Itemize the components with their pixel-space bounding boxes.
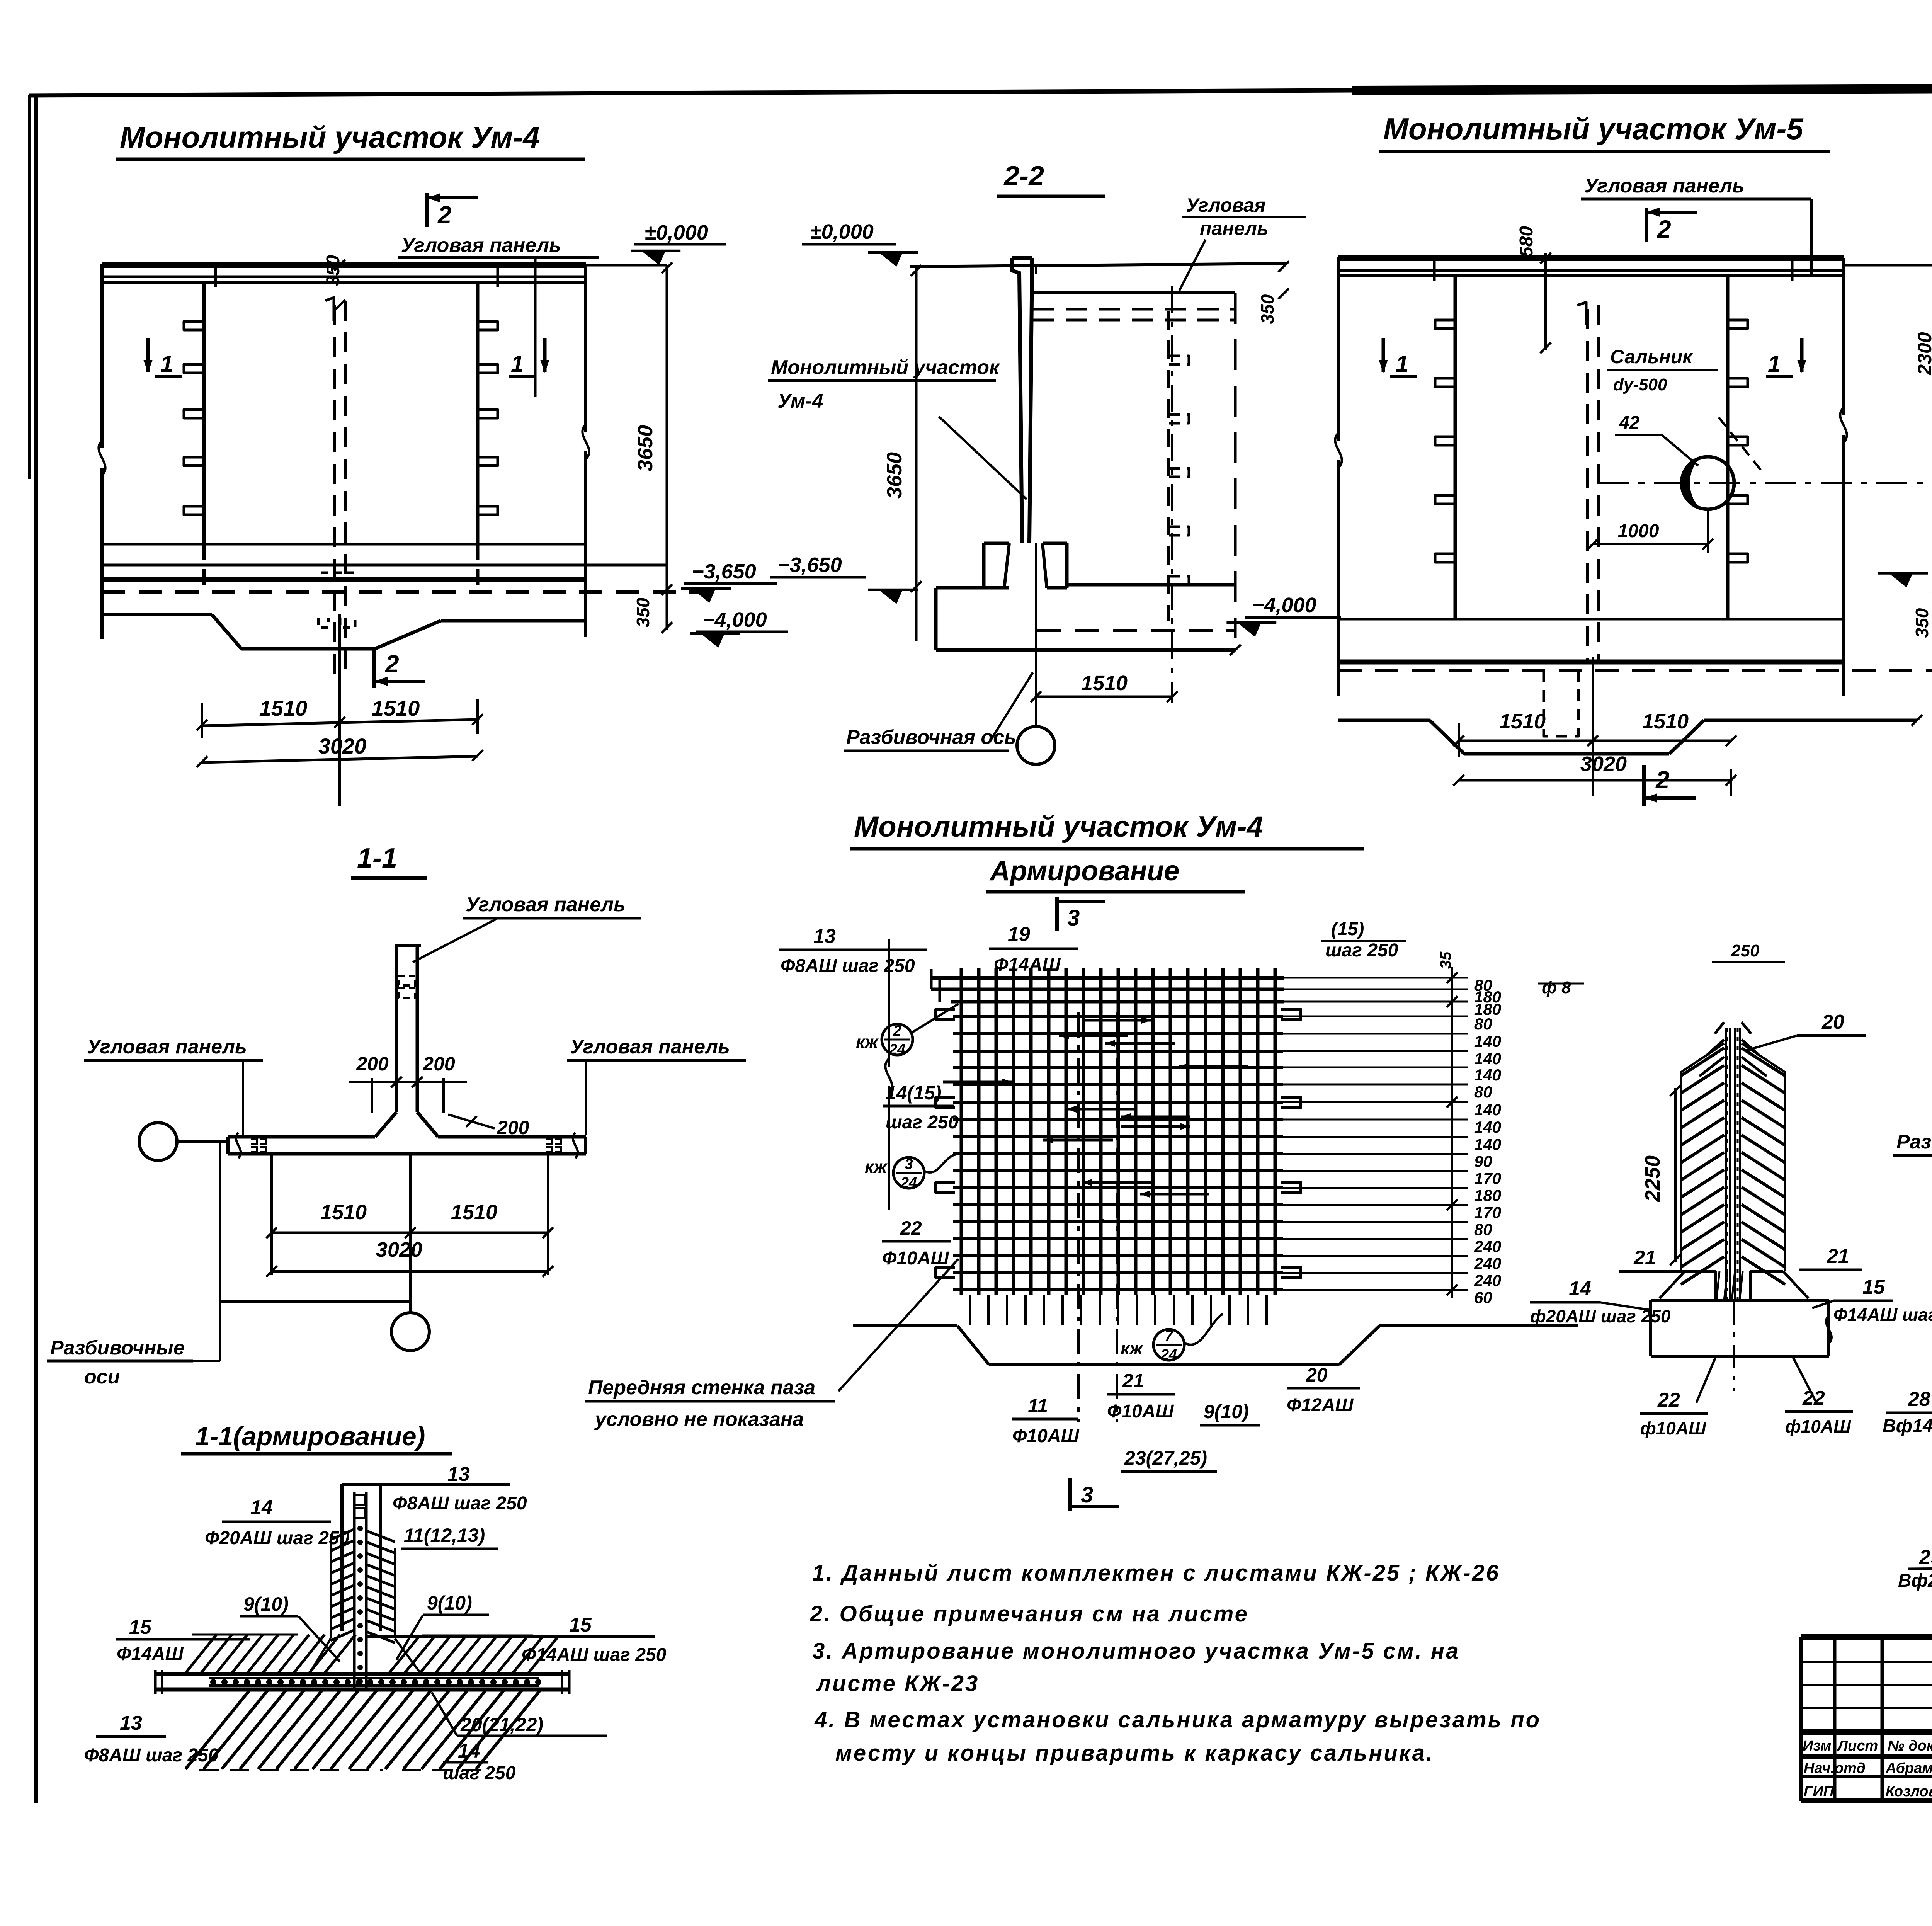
label: survey axis (view B) bbox=[844, 672, 1033, 751]
svg-text:19: 19 bbox=[1008, 923, 1030, 946]
dimension values column (right of mesh) bbox=[1474, 976, 1501, 1307]
pit (view C) bbox=[1338, 715, 1922, 754]
svg-text:3: 3 bbox=[905, 1156, 913, 1172]
svg-text:200: 200 bbox=[422, 1053, 455, 1075]
svg-text:1510: 1510 bbox=[1081, 672, 1128, 695]
svg-text:Угловая панель: Угловая панель bbox=[570, 1036, 730, 1058]
label: Monolithic section Um-4 with leader (view B) bbox=[768, 356, 1027, 499]
label: corner panel (view C top) bbox=[1581, 175, 1811, 275]
dim 2250 (view H, rotated) bbox=[1641, 1085, 1681, 1265]
dim 200/200 (view F) bbox=[349, 1053, 467, 1113]
dim 1510/1510 (view C) bbox=[1453, 710, 1736, 796]
dim 1510 (view B bottom) bbox=[1031, 672, 1178, 702]
svg-text:80: 80 bbox=[1474, 1220, 1492, 1239]
svg-text:42: 42 bbox=[1619, 413, 1640, 433]
dim 3020 (view A) bbox=[197, 734, 483, 767]
right panel wall with notches bbox=[478, 282, 498, 591]
label 21 Ф10АШ bbox=[1107, 1370, 1175, 1422]
mesh edge tabs (right) bbox=[1281, 1009, 1301, 1278]
monolithic joint dashed pair with sleeve (view C) bbox=[1577, 302, 1598, 662]
slab band with rebar dots (view J) bbox=[155, 1670, 569, 1694]
svg-text:Ф10АШ: Ф10АШ bbox=[882, 1248, 949, 1269]
svg-text:Монолитный участок: Монолитный участок bbox=[771, 356, 1000, 379]
elevation -3,650 (view A right) bbox=[681, 560, 777, 603]
svg-text:2250: 2250 bbox=[1641, 1155, 1664, 1202]
svg-text:28: 28 bbox=[1908, 1388, 1930, 1410]
reinforcement mesh: horizontal wall bars bbox=[953, 1016, 1283, 1290]
svg-text:24: 24 bbox=[889, 1041, 905, 1058]
right panel wall with notches (view C) bbox=[1728, 276, 1748, 619]
svg-text:±0,000: ±0,000 bbox=[645, 221, 708, 244]
svg-text:1510: 1510 bbox=[451, 1201, 497, 1224]
svg-text:21: 21 bbox=[1827, 1245, 1849, 1268]
level line -2,300 through opening bbox=[1598, 482, 1932, 484]
svg-text:15: 15 bbox=[569, 1614, 592, 1636]
svg-text:1510: 1510 bbox=[1499, 710, 1546, 733]
monolithic joint: dashed double line on axis bbox=[325, 298, 345, 676]
svg-text:шаг 250: шаг 250 bbox=[1325, 940, 1398, 961]
chevron hatching right (view H) bbox=[1742, 1022, 1785, 1285]
section flag 2 (bottom) bbox=[374, 650, 425, 688]
rebar labels top-left (13, 19) bbox=[779, 923, 1078, 976]
svg-text:Сальник: Сальник bbox=[1610, 346, 1693, 368]
left panel wall with notches (view C) bbox=[1435, 276, 1455, 619]
label 13 Ф8АШ шаг 250 (bottom-left) bbox=[84, 1712, 219, 1766]
svg-text:3. Артирование монолитного: 3. Артирование монолитного участка Ум-5 … bbox=[812, 1638, 1460, 1664]
chevron outer borders (view H) bbox=[1681, 1043, 1785, 1271]
section marks 1-1 (view C) bbox=[1379, 338, 1806, 377]
svg-text:90: 90 bbox=[1474, 1152, 1492, 1171]
slab rebar dots (view J) bbox=[210, 1679, 541, 1685]
chevron hatching left (view H) bbox=[1681, 1022, 1724, 1285]
svg-text:кж: кж bbox=[856, 1032, 879, 1052]
svg-text:Угловая панель: Угловая панель bbox=[466, 893, 626, 916]
svg-text:Лист: Лист bbox=[1837, 1738, 1878, 1754]
svg-text:7: 7 bbox=[1165, 1328, 1173, 1344]
svg-text:23(27,25): 23(27,25) bbox=[1124, 1447, 1207, 1469]
label 13 Ф8АШ шаг 250 (top) bbox=[342, 1463, 527, 1514]
survey axes label and connectors (view F) bbox=[47, 1142, 410, 1388]
svg-text:13: 13 bbox=[120, 1712, 142, 1734]
elevation -3,650 (view B left) bbox=[770, 553, 918, 604]
svg-text:20: 20 bbox=[1306, 1364, 1328, 1386]
svg-text:3: 3 bbox=[1081, 1482, 1093, 1507]
base pedestal (view H) bbox=[1651, 1271, 1832, 1356]
stem hatching left wedge (view J) bbox=[309, 1530, 354, 1674]
svg-text:Угловая панель: Угловая панель bbox=[1584, 175, 1744, 197]
svg-text:−3,650: −3,650 bbox=[692, 560, 756, 583]
top wall band (view C) bbox=[1338, 258, 1932, 281]
svg-text:3: 3 bbox=[1067, 905, 1080, 931]
svg-text:2: 2 bbox=[385, 650, 399, 678]
svg-text:Ф14АШ: Ф14АШ bbox=[117, 1644, 184, 1664]
svg-text:листе КЖ-23: листе КЖ-23 bbox=[816, 1671, 979, 1696]
svg-text:140: 140 bbox=[1474, 1135, 1501, 1154]
hatching below slab (view J) bbox=[185, 1691, 540, 1770]
mesh edge tabs (left) bbox=[936, 1009, 955, 1278]
label 14 шаг 250 (bottom-right) bbox=[443, 1740, 516, 1783]
top wall band (plan) bbox=[102, 265, 667, 287]
hidden slab edge (dashed pair, view B) bbox=[1033, 309, 1235, 320]
svg-text:35: 35 bbox=[1437, 951, 1454, 969]
label 22 Ф10АШ (left) bbox=[882, 1217, 951, 1269]
svg-text:Ф8АШ шаг 250: Ф8АШ шаг 250 bbox=[84, 1745, 219, 1766]
svg-text:Абрамович: Абрамович bbox=[1885, 1760, 1932, 1776]
dim 1510 / 1510 (view A) bbox=[197, 696, 483, 738]
svg-text:Нач.отд: Нач.отд bbox=[1804, 1760, 1866, 1776]
labels 14 Ф20АШ шаг 250 / 15 Ф14АШ шаг 250 (view H) bbox=[1530, 1276, 1932, 1326]
svg-text:Угловая: Угловая bbox=[1186, 194, 1265, 216]
svg-text:9(10): 9(10) bbox=[243, 1593, 289, 1615]
axis circle left (view F) bbox=[139, 1123, 228, 1160]
svg-text:кж: кж bbox=[1121, 1338, 1143, 1358]
svg-text:29: 29 bbox=[1919, 1546, 1932, 1569]
svg-text:−4,000: −4,000 bbox=[702, 608, 767, 631]
svg-text:1510: 1510 bbox=[259, 696, 308, 720]
svg-text:2. Общие примечания см на ли: 2. Общие примечания см на листе bbox=[810, 1601, 1249, 1627]
svg-text:15: 15 bbox=[1862, 1276, 1885, 1298]
corner panel outer edge (view B, long dash) bbox=[1234, 293, 1237, 638]
notes list bbox=[810, 1560, 1541, 1766]
right boundary (view C) bbox=[1840, 258, 1847, 696]
svg-text:Ф14АШ шаг 250: Ф14АШ шаг 250 bbox=[1833, 1305, 1932, 1325]
axis circle bottom (view F) bbox=[391, 1154, 429, 1351]
pedestal at column base (view B) bbox=[984, 543, 1067, 588]
corner panel hidden edge with notches (view B, dashed) bbox=[1169, 311, 1189, 621]
svg-text:ф10АШ: ф10АШ bbox=[1640, 1418, 1706, 1438]
km 7/24 reference circle (bottom) bbox=[1121, 1314, 1223, 1363]
svg-text:Ф10АШ: Ф10АШ bbox=[1107, 1401, 1174, 1422]
svg-text:22: 22 bbox=[900, 1217, 922, 1239]
svg-text:4. В местах установки сальни: 4. В местах установки сальника арматуру … bbox=[814, 1707, 1541, 1732]
svg-text:Разбивочные: Разбивочные bbox=[50, 1337, 185, 1359]
svg-text:2: 2 bbox=[893, 1023, 901, 1039]
svg-text:Разбивочная ось: Разбивочная ось bbox=[846, 726, 1016, 749]
hatch inside pedestal (view H) bbox=[1716, 1271, 1743, 1300]
label corner panel (view F left) bbox=[84, 1036, 263, 1135]
dim 3020 (view F) bbox=[266, 1238, 553, 1277]
title block frame bbox=[1801, 1637, 1932, 1801]
svg-text:14: 14 bbox=[250, 1496, 273, 1519]
svg-text:140: 140 bbox=[1474, 1050, 1501, 1068]
svg-text:80: 80 bbox=[1474, 1015, 1492, 1033]
svg-text:3020: 3020 bbox=[318, 734, 367, 758]
stem hatching right wedge (view J) bbox=[367, 1531, 421, 1674]
title: Monolithic section Um-5 bbox=[1379, 112, 1830, 151]
left boundary (view C) bbox=[1335, 257, 1342, 696]
svg-text:−4,000: −4,000 bbox=[1252, 594, 1316, 617]
title: section 1-1 (left) bbox=[351, 843, 427, 878]
T horizontal slab (view F) bbox=[228, 1112, 586, 1158]
bottom dowels of mesh bbox=[970, 1295, 1267, 1325]
T-stem wall (view F) bbox=[395, 945, 421, 1112]
section flag 2 (view C top) bbox=[1646, 208, 1697, 243]
svg-text:13: 13 bbox=[813, 925, 836, 948]
svg-text:15: 15 bbox=[129, 1616, 152, 1638]
svg-text:Изм: Изм bbox=[1803, 1738, 1831, 1754]
title block texts: left header row bbox=[1803, 1738, 1932, 1754]
sleeve marks at joint bottom (dashed) bbox=[318, 573, 355, 628]
left panel wall with notches bbox=[184, 282, 204, 591]
label 9(10) (view G) bbox=[1200, 1401, 1260, 1425]
svg-text:2: 2 bbox=[1657, 215, 1671, 243]
svg-text:14: 14 bbox=[458, 1740, 480, 1762]
slab underside line (view B) bbox=[1032, 291, 1235, 294]
svg-text:шаг 250: шаг 250 bbox=[886, 1112, 959, 1133]
section flag 3 (view G top) bbox=[1057, 897, 1105, 931]
stem formwork verticals (view J) bbox=[342, 1484, 380, 1690]
labels 22 Ф10АШ x2 (view H bottom) bbox=[1640, 1357, 1853, 1438]
svg-text:140: 140 bbox=[1474, 1066, 1501, 1084]
svg-text:240: 240 bbox=[1474, 1271, 1501, 1290]
top level line (view B) bbox=[910, 264, 1287, 267]
svg-text:±0,000: ±0,000 bbox=[810, 220, 874, 243]
svg-text:9(10): 9(10) bbox=[427, 1592, 472, 1614]
svg-text:панель: панель bbox=[1200, 218, 1269, 239]
extension lines to dimension column (right) bbox=[1283, 978, 1468, 1290]
reinforcement mesh: top slab bars (3 rows) bbox=[931, 969, 1284, 1002]
svg-text:1: 1 bbox=[160, 351, 173, 377]
svg-text:1-1(армирование): 1-1(армирование) bbox=[195, 1422, 425, 1451]
svg-text:14: 14 bbox=[1569, 1278, 1591, 1300]
svg-text:170: 170 bbox=[1474, 1169, 1501, 1188]
svg-text:240: 240 bbox=[1474, 1254, 1501, 1273]
svg-text:−3,650: −3,650 bbox=[777, 553, 842, 577]
svg-text:Угловая панель: Угловая панель bbox=[401, 234, 561, 257]
label corner panel (view F top) bbox=[413, 893, 641, 962]
svg-text:20: 20 bbox=[1821, 1011, 1844, 1033]
label 20(21,22) bbox=[432, 1693, 607, 1736]
svg-text:13: 13 bbox=[447, 1463, 470, 1485]
svg-text:Монолитный участок Ум-4: Монолитный участок Ум-4 bbox=[854, 810, 1263, 843]
svg-text:Ф10АШ: Ф10АШ bbox=[1012, 1426, 1080, 1446]
svg-text:Ф14АШ: Ф14АШ bbox=[994, 954, 1061, 975]
km 2/24 sheet reference circle bbox=[856, 1004, 958, 1058]
svg-text:350: 350 bbox=[633, 597, 653, 627]
label 11(12,13) bbox=[401, 1524, 498, 1549]
section marks 1-1 (left and right) bbox=[143, 338, 549, 377]
svg-text:Козловская: Козловская bbox=[1886, 1783, 1932, 1800]
wall column Um-4 (section) bbox=[1012, 258, 1032, 543]
dim 3020 (view C) bbox=[1453, 752, 1736, 786]
svg-text:кж: кж bbox=[865, 1157, 888, 1177]
label 28 Вф14АШ (view L) bbox=[1883, 1388, 1932, 1446]
svg-text:21: 21 bbox=[1633, 1247, 1656, 1269]
svg-text:месту и концы приварить к: месту и концы приварить к каркасу сальни… bbox=[835, 1741, 1434, 1766]
rebar labels top-right ((15) шаг 250, 35) bbox=[1321, 919, 1454, 969]
svg-text:1: 1 bbox=[511, 351, 524, 377]
elevation +-0,000 (view A right) bbox=[631, 221, 726, 265]
corner panel axis (dash-dot, view B) bbox=[1171, 286, 1173, 703]
svg-text:Ф8АШ шаг 250: Ф8АШ шаг 250 bbox=[781, 956, 915, 976]
right boundary edge with break bbox=[582, 264, 589, 637]
hatching above slab right (view J) bbox=[388, 1635, 559, 1674]
svg-text:60: 60 bbox=[1474, 1288, 1492, 1307]
title: Monolithic section Um-4 bbox=[116, 120, 585, 159]
title block texts: signature rows bbox=[1804, 1760, 1932, 1816]
svg-text:1-1: 1-1 bbox=[357, 843, 397, 874]
gland label (Salnik dy=500) bbox=[1607, 346, 1718, 394]
label 20 Ф12АШ bbox=[1287, 1364, 1360, 1416]
km 3/24 sheet reference circle bbox=[865, 1154, 958, 1191]
svg-text:3650: 3650 bbox=[883, 452, 906, 499]
section flag 3 (view G bottom) bbox=[1070, 1478, 1119, 1511]
panel joint tabs (view F) bbox=[251, 1139, 561, 1152]
svg-text:Ф12АШ: Ф12АШ bbox=[1287, 1395, 1354, 1416]
svg-text:№ докум.: № докум. bbox=[1888, 1738, 1932, 1754]
partial label f8 (faint, above) bbox=[1538, 941, 1785, 997]
gland opening circle with dark crescent (view C) bbox=[1680, 457, 1734, 509]
label survey axis (view I) bbox=[1893, 1113, 1932, 1179]
stem rebar dots column (view J) bbox=[357, 1526, 363, 1684]
title: section 2-2 (center) bbox=[997, 161, 1105, 196]
right dimension line of mesh bbox=[1447, 967, 1458, 1298]
axis dash-dot pair (view G) bbox=[1078, 1012, 1117, 1422]
svg-text:20(21,22): 20(21,22) bbox=[460, 1714, 543, 1735]
elevation +-0,000 (view B) bbox=[802, 220, 918, 267]
dim 200 (flare height, view F) bbox=[448, 1114, 529, 1138]
label 20 (view H top-right) bbox=[1747, 1011, 1866, 1050]
svg-text:оси: оси bbox=[84, 1366, 120, 1388]
dim 580 (view C, rotated) bbox=[1516, 226, 1551, 353]
svg-text:1: 1 bbox=[1768, 351, 1781, 377]
svg-text:80: 80 bbox=[1474, 1083, 1492, 1101]
svg-text:шаг 250: шаг 250 bbox=[443, 1763, 516, 1783]
svg-text:Ф8АШ шаг 250: Ф8АШ шаг 250 bbox=[393, 1493, 527, 1514]
svg-text:170: 170 bbox=[1474, 1203, 1501, 1222]
svg-text:1510: 1510 bbox=[372, 696, 420, 720]
axis line (view C) bbox=[1592, 657, 1594, 796]
svg-text:11: 11 bbox=[1028, 1395, 1048, 1417]
label 29 Вф23АШ (view L) bbox=[1898, 1546, 1932, 1591]
svg-text:Монолитный участок Ум-5: Монолитный участок Ум-5 bbox=[1383, 112, 1804, 146]
svg-text:9(10): 9(10) bbox=[1204, 1401, 1249, 1422]
left boundary edge with break bbox=[99, 264, 105, 639]
section flag 2 (view C bottom) bbox=[1644, 765, 1696, 806]
vertical dim line 3650 (view A right) bbox=[633, 262, 672, 633]
svg-text:24: 24 bbox=[1160, 1347, 1177, 1363]
svg-text:Монолитный участок Ум-4: Монолитный участок Ум-4 bbox=[120, 120, 540, 154]
hatching above slab left (view J) bbox=[185, 1635, 355, 1674]
svg-text:180: 180 bbox=[1474, 1186, 1501, 1205]
right elevation group of view C bbox=[1914, 264, 1932, 590]
pit (trapezoid recess) bbox=[102, 614, 586, 649]
elevation -3,650 / -4,000 (view C right) bbox=[1878, 557, 1932, 643]
dim 350 (top, rotated) bbox=[323, 255, 345, 311]
title: Monolithic section Um-4 / Reinforcement bbox=[850, 810, 1364, 892]
labels 15 Ф14АШ (left) / 15 Ф14АШ шаг 250 (right) bbox=[116, 1614, 667, 1665]
svg-text:2300: 2300 bbox=[1914, 332, 1932, 375]
svg-text:2: 2 bbox=[437, 201, 452, 229]
svg-text:1: 1 bbox=[1396, 351, 1408, 377]
label: corner panel (Uglovaya panel) bbox=[398, 234, 599, 397]
svg-text:11(12,13): 11(12,13) bbox=[404, 1524, 485, 1546]
lower slab lines of plan bbox=[100, 544, 720, 592]
leader 42 to opening bbox=[1615, 413, 1762, 471]
svg-text:350: 350 bbox=[1257, 294, 1277, 324]
svg-text:2-2: 2-2 bbox=[1003, 161, 1044, 192]
svg-text:Ф20АШ шаг 250: Ф20АШ шаг 250 bbox=[205, 1528, 350, 1548]
elevation -4,000 (view A right) bbox=[690, 608, 788, 648]
lap splice arrows inside mesh bbox=[943, 1017, 1248, 1225]
svg-text:140: 140 bbox=[1474, 1118, 1501, 1136]
svg-text:ГИП: ГИП bbox=[1804, 1783, 1834, 1800]
svg-text:Армирование: Армирование bbox=[989, 856, 1179, 886]
joint core: vertical rebar lines (view H) bbox=[1726, 1028, 1740, 1302]
svg-text:240: 240 bbox=[1474, 1237, 1501, 1256]
svg-text:ф10АШ: ф10АШ bbox=[1785, 1416, 1851, 1436]
pit outline (view G bottom) bbox=[853, 1326, 1578, 1365]
dim 350 (view B right) bbox=[1257, 261, 1289, 324]
title: 1-1 (reinforcement) bbox=[181, 1422, 452, 1454]
svg-text:ф 8: ф 8 bbox=[1542, 978, 1571, 997]
svg-text:140: 140 bbox=[1474, 1101, 1501, 1119]
svg-text:(15): (15) bbox=[1331, 919, 1364, 939]
center axis dash-dot (view H) bbox=[1733, 1302, 1735, 1391]
svg-text:Вф14АШ: Вф14АШ bbox=[1883, 1416, 1932, 1436]
label: corner panel (view B) bbox=[1179, 194, 1306, 291]
reinforcement mesh: vertical bars bbox=[961, 968, 1275, 1295]
dim 1510/1510 (view F) bbox=[266, 1155, 553, 1275]
svg-text:3020: 3020 bbox=[1580, 752, 1627, 776]
svg-text:Ум-4: Ум-4 bbox=[777, 390, 823, 412]
-4,000 dashed level and flag (view B) bbox=[1037, 594, 1341, 637]
labels 21 / 21 (view H) bbox=[1619, 1245, 1862, 1271]
svg-text:3020: 3020 bbox=[376, 1238, 422, 1261]
sleeve dashed box at pit (view C) bbox=[1544, 671, 1578, 736]
svg-text:140: 140 bbox=[1474, 1032, 1501, 1050]
footing (view B) bbox=[936, 585, 1241, 655]
svg-text:14(15): 14(15) bbox=[886, 1082, 942, 1104]
label corner panel (view F right) bbox=[567, 1036, 746, 1135]
left boundary bracket of view G bbox=[885, 939, 892, 1210]
axis line (vertical) of plan A bbox=[338, 614, 341, 806]
label 11 Ф10АШ bbox=[1012, 1395, 1080, 1446]
svg-text:1510: 1510 bbox=[1642, 710, 1689, 733]
svg-text:1000: 1000 bbox=[1618, 521, 1659, 541]
svg-text:22: 22 bbox=[1657, 1389, 1680, 1411]
label 23(27,25) bbox=[1121, 1447, 1217, 1472]
label 14(15) шаг 250 bbox=[883, 1082, 959, 1133]
svg-text:Угловая панель: Угловая панель bbox=[87, 1036, 247, 1058]
vertical dim 3650 (view B) bbox=[883, 265, 922, 641]
svg-text:350: 350 bbox=[1912, 608, 1932, 638]
axis of view B with circle bbox=[1017, 267, 1055, 764]
svg-text:условно не показана: условно не показана bbox=[594, 1408, 804, 1431]
svg-text:24: 24 bbox=[900, 1175, 917, 1191]
labels 9(10) left and right (view J) bbox=[240, 1592, 489, 1662]
svg-text:200: 200 bbox=[356, 1053, 389, 1075]
svg-text:21: 21 bbox=[1122, 1370, 1144, 1392]
dim 1000 (view C) bbox=[1587, 509, 1713, 553]
bottom slab lines (view C) bbox=[1338, 619, 1932, 671]
note: front wall of groove (text) bbox=[585, 1259, 958, 1431]
svg-text:1. Данный лист комплектен с: 1. Данный лист комплектен с листами КЖ-2… bbox=[812, 1560, 1500, 1586]
svg-text:1510: 1510 bbox=[320, 1201, 367, 1224]
svg-text:3650: 3650 bbox=[634, 425, 657, 471]
svg-text:250: 250 bbox=[1731, 941, 1760, 960]
svg-text:Вф23АШ: Вф23АШ bbox=[1898, 1570, 1932, 1591]
svg-text:580: 580 bbox=[1516, 226, 1537, 257]
section flag 2 (top) bbox=[427, 193, 478, 229]
svg-text:Передняя стенка паза: Передняя стенка паза bbox=[588, 1376, 815, 1399]
svg-text:dу-500: dу-500 bbox=[1613, 375, 1667, 394]
label 14 Ф20АШ шаг 250 (left) bbox=[205, 1496, 350, 1548]
svg-text:Разбивочная: Разбивочная bbox=[1896, 1131, 1932, 1153]
